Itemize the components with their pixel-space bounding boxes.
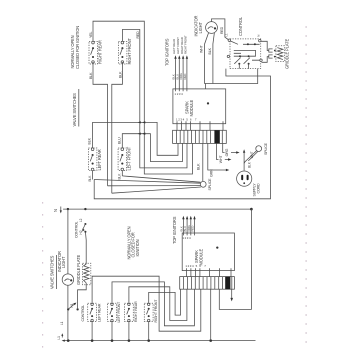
svg-text:RED: RED	[136, 31, 140, 39]
svg-text:1 2 3 4 5 6 7: 1 2 3 4 5 6 7	[185, 264, 206, 268]
svg-text:BLK: BLK	[248, 161, 252, 168]
valve switch LEFT FRONT (bottom)	[108, 301, 122, 323]
wire indicator WHT to control	[205, 33, 258, 84]
connector strip (bottom)	[180, 277, 235, 290]
pin ticks and numbers (top module)	[175, 89, 224, 124]
wire indicator RED to control	[212, 19, 229, 40]
svg-text:CONTROL: CONTROL	[238, 16, 243, 36]
wire left front to L1 bus	[111, 322, 113, 340]
page perforation dots right	[306, 26, 307, 343]
svg-text:1 2 3 4: 1 2 3 4	[175, 92, 184, 96]
wire indicator feed (bottom)	[67, 209, 69, 274]
connector strip (top)	[173, 130, 227, 143]
wire right rear to L1 bus	[128, 322, 130, 340]
label NORMALLY OPEN CLOSED FOR IGNITION (bottom)	[126, 226, 139, 259]
svg-text:1 2 3 4 5 6 7: 1 2 3 4 5 6 7	[176, 117, 197, 121]
big loop wire control L1 to chassis run	[94, 69, 270, 199]
svg-text:BLK: BLK	[89, 72, 93, 79]
svg-text:LEFT REAR: LEFT REAR	[97, 149, 102, 170]
svg-text:RIGHT FRONT: RIGHT FRONT	[184, 35, 188, 54]
svg-text:TOP IGNITORS: TOP IGNITORS	[164, 38, 169, 66]
wire BLK connector to splice (top)	[202, 143, 204, 181]
ground lead with down arrow	[230, 289, 233, 301]
svg-text:BLK: BLK	[87, 137, 91, 144]
svg-text:BLK: BLK	[118, 71, 122, 78]
valve switch LEFT FRONT (top)	[118, 146, 132, 171]
wire right front S-route to connector	[149, 289, 181, 315]
splice S2 (top right)	[256, 142, 268, 155]
label VALVE SWITCHES (top)	[72, 89, 79, 127]
splice S1 (top)	[200, 178, 212, 191]
wire L1 bus with arrow	[57, 333, 256, 341]
wires module to connector (bottom)	[186, 271, 231, 277]
valve switch RIGHT FRONT (bottom)	[144, 299, 158, 323]
svg-text:VALVE SWITCHES: VALVE SWITCHES	[50, 255, 55, 289]
supply cord plug	[237, 171, 261, 197]
control switch H2 L2 (bottom)	[74, 218, 86, 238]
svg-text:CONTROL: CONTROL	[81, 305, 85, 322]
wires splice to supply	[244, 151, 258, 164]
wire left rear to L1 bus	[91, 322, 93, 340]
svg-text:L1: L1	[60, 321, 64, 325]
griddle plate element (bottom)	[76, 255, 91, 285]
label N with arrow	[53, 207, 62, 214]
wires control to griddle plug	[261, 41, 269, 62]
svg-text:N: N	[53, 209, 58, 212]
indicator light (bottom)	[57, 251, 74, 285]
svg-text:VALVE SWITCHES: VALVE SWITCHES	[72, 93, 77, 127]
svg-text:LIGHT: LIGHT	[198, 22, 203, 34]
svg-text:BLK: BLK	[88, 175, 92, 182]
labels BLK BLU ORG RED (ignitor leads top)	[172, 72, 187, 79]
control switch L1 H1 (bottom)	[60, 303, 85, 325]
valve switch LEFT REAR (top)	[88, 148, 102, 171]
svg-text:IGNITION: IGNITION	[135, 239, 140, 256]
svg-text:BLK: BLK	[208, 47, 212, 54]
svg-text:BLK: BLK	[197, 163, 201, 170]
wire spark module feed	[204, 84, 206, 89]
junction dots N bus	[67, 208, 69, 210]
svg-text:1 2 3 4: 1 2 3 4	[182, 236, 191, 240]
wire YEL bus: right rear switch to spark module pin 4	[93, 21, 193, 174]
wire indicator to L1 contact	[67, 285, 69, 339]
label NORMALLY OPEN CLOSED FOR IGNITION (top)	[70, 26, 80, 69]
page perforation dots left	[42, 202, 43, 348]
svg-text:RIGHT REAR: RIGHT REAR	[134, 301, 138, 322]
wire RED: right front switch to spark module pin 3	[122, 30, 187, 168]
wire left front top to bus	[122, 134, 182, 162]
svg-text:RED: RED	[191, 226, 195, 232]
svg-text:WHT: WHT	[250, 151, 254, 158]
labels ignitor leads (bottom)	[180, 224, 195, 231]
wire right front BLK down to splice	[112, 62, 123, 193]
svg-text:LEFT REAR: LEFT REAR	[97, 303, 101, 322]
pin ticks and numbers (bottom module)	[182, 233, 231, 271]
ignitor wires with arrows (top module)	[174, 55, 188, 89]
junction arrow marks on buses	[138, 121, 146, 135]
wire GRN with arrow	[208, 143, 230, 177]
svg-text:N: N	[257, 35, 261, 37]
wire right rear BLK down to splice	[93, 62, 108, 186]
svg-text:LEFT FRONT: LEFT FRONT	[117, 301, 121, 323]
svg-text:RIGHT FRONT: RIGHT FRONT	[154, 299, 158, 323]
control switch box (top)	[225, 33, 263, 69]
svg-text:BLU: BLU	[118, 137, 122, 144]
svg-text:SPLICE: SPLICE	[264, 142, 268, 155]
supply cord lead with arrow	[243, 149, 245, 170]
griddle plate element (top)	[276, 39, 290, 69]
spark module U2 (bottom)	[182, 233, 234, 271]
wire N return to connector	[219, 209, 251, 309]
junction dots L1 bus	[67, 339, 212, 342]
wire left rear S-route to connector	[92, 276, 201, 331]
svg-text:TOP IGNITORS: TOP IGNITORS	[172, 216, 177, 244]
indicator light (top)	[194, 16, 218, 37]
valve switch RIGHT REAR (top)	[89, 40, 102, 64]
valve switch RIGHT REAR (bottom)	[125, 301, 139, 322]
svg-text:CORD: CORD	[257, 183, 261, 194]
ignitor wires with arrows (bottom module)	[182, 216, 196, 233]
wire left rear top to bus	[93, 122, 178, 155]
svg-text:L1: L1	[225, 33, 229, 37]
svg-text:GRIDDLE PLATE: GRIDDLE PLATE	[285, 39, 290, 69]
svg-text:L1: L1	[57, 336, 61, 340]
wire griddle to H1	[78, 283, 87, 308]
svg-text:GRIDDLE PLATE: GRIDDLE PLATE	[76, 255, 81, 285]
svg-text:GRN: GRN	[210, 169, 214, 177]
wire connector to L1 bus	[210, 289, 212, 339]
wire left rear bottom to splice fan	[92, 171, 94, 180]
svg-text:RED: RED	[220, 26, 224, 34]
spark module U1 (top)	[173, 89, 226, 124]
wires module to connector (top)	[177, 124, 223, 131]
svg-text:BLK: BLK	[117, 173, 121, 180]
svg-text:WHT: WHT	[200, 44, 204, 53]
valve switch RIGHT FRONT (top)	[118, 38, 132, 65]
svg-text:RED: RED	[183, 74, 187, 80]
svg-text:SPLICE: SPLICE	[208, 178, 212, 191]
svg-text:YEL: YEL	[89, 32, 93, 38]
label VALVE SWITCHES (bottom)	[50, 255, 57, 289]
svg-text:RIGHT REAR: RIGHT REAR	[97, 40, 102, 64]
svg-text:LIGHT: LIGHT	[61, 256, 66, 268]
splice fan wires	[94, 176, 201, 193]
wire ORG with arrow	[223, 143, 240, 156]
svg-text:MODULE: MODULE	[189, 99, 194, 116]
wire WHT with arrow	[217, 143, 232, 163]
svg-text:CLOSED FOR IGNITION: CLOSED FOR IGNITION	[75, 26, 80, 69]
svg-text:ORG: ORG	[225, 148, 229, 156]
wire left front S-route to connector	[112, 282, 194, 326]
svg-text:MODULE: MODULE	[199, 248, 204, 265]
wire left front bottom to splice fan	[121, 171, 123, 176]
wire indicator BLK down	[213, 33, 215, 84]
wire N bus	[63, 208, 251, 210]
svg-text:L2: L2	[79, 218, 83, 222]
svg-text:CONTROL: CONTROL	[74, 221, 78, 238]
griddle plug contacts	[269, 49, 276, 58]
wire H2 to griddle	[84, 232, 87, 264]
valve switch LEFT REAR (bottom)	[88, 303, 102, 322]
svg-text:H1: H1	[70, 303, 74, 307]
svg-text:WHT: WHT	[219, 155, 223, 164]
wire right rear S-route to connector	[129, 287, 187, 321]
svg-text:RIGHT FRONT: RIGHT FRONT	[127, 38, 132, 65]
svg-text:H2: H2	[79, 230, 83, 234]
svg-text:LEFT FRONT: LEFT FRONT	[127, 146, 132, 170]
wire right front to L1 bus	[148, 322, 150, 340]
labels ignitor destinations (top)	[172, 35, 187, 54]
